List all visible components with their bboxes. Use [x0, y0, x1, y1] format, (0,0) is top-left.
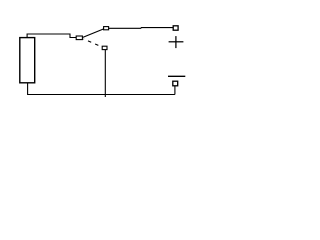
bottom rail wire	[27, 94, 175, 96]
switch S1 pole contact	[76, 36, 82, 40]
switch S1 bottom throw contact	[102, 46, 107, 49]
battery BT1 plus sign	[169, 41, 184, 43]
switch S1 top throw contact	[104, 27, 109, 30]
switch S1 alternate position (dashed)	[84, 39, 102, 47]
wire from bottom throw contact to bottom rail	[104, 50, 106, 97]
wire from resistor bottom down to bottom rail	[27, 83, 29, 95]
resistor R1	[20, 38, 35, 83]
wire from top throw to battery positive terminal (segment 1)	[109, 27, 142, 29]
battery BT1 minus sign	[168, 75, 185, 77]
wire from resistor top to switch pole	[27, 34, 76, 38]
battery BT1 negative terminal pad	[173, 81, 178, 86]
battery BT1 positive terminal pad	[173, 26, 178, 30]
wire from negative terminal down to bottom rail	[174, 86, 176, 95]
wire segment 2	[141, 27, 173, 29]
switch S1 blade (closed to top throw)	[83, 29, 104, 38]
